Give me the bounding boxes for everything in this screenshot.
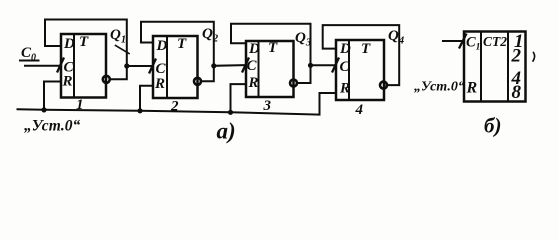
svg-text:D: D: [156, 38, 168, 54]
svg-text:Q4: Q4: [388, 28, 404, 47]
svg-text:CT2: CT2: [483, 34, 507, 49]
svg-text:C: C: [340, 59, 351, 75]
node junction T3 output: [308, 63, 313, 68]
svg-text:R: R: [62, 74, 73, 90]
CT2 input wire C1: [443, 40, 462, 42]
wire C0 to T1 C input: [25, 65, 60, 67]
node junction T1 output: [124, 63, 129, 68]
svg-text:8: 8: [512, 82, 522, 103]
reset bus Уст.0: [18, 93, 336, 115]
svg-text:3: 3: [263, 98, 272, 114]
wire T3 to T4 C input: [311, 64, 334, 66]
T1 dynamic input slash: [58, 59, 64, 72]
svg-text:б): б): [484, 114, 501, 138]
svg-text:R: R: [248, 75, 259, 91]
flip-flop T3 box: [246, 41, 294, 97]
svg-text:R: R: [466, 80, 478, 97]
svg-text:Q3: Q3: [295, 30, 311, 49]
svg-text:а): а): [217, 119, 236, 144]
node T3 reset junction: [228, 110, 233, 115]
T3 dynamic input slash: [243, 59, 249, 72]
svg-text:„Уст.0“: „Уст.0“: [414, 80, 465, 95]
svg-text:D: D: [63, 36, 75, 52]
svg-text:C: C: [156, 61, 167, 77]
svg-text:T: T: [79, 34, 89, 50]
svg-text:D: D: [339, 41, 351, 57]
flip-flop T1 box: [61, 34, 106, 98]
svg-text:2: 2: [511, 46, 522, 67]
node T2 reset junction: [137, 108, 142, 113]
T1 inverted output bubble: [103, 76, 110, 83]
Q1 leader line: [116, 46, 130, 54]
counter CT2 box: [464, 32, 526, 102]
wire T1 feedback loop (bubble to D): [45, 20, 127, 80]
svg-text:Q2: Q2: [202, 26, 219, 45]
wire T2 R riser: [140, 86, 152, 111]
node T1 reset junction: [41, 107, 46, 112]
flip-flop T2 box: [153, 36, 198, 98]
node junction T2 output: [211, 63, 216, 68]
svg-text:4: 4: [355, 102, 364, 118]
stray print mark: [533, 53, 535, 62]
wire T2 to T3 C input: [214, 64, 244, 67]
svg-text:T: T: [268, 40, 278, 56]
T4 inverted output bubble: [380, 82, 387, 89]
wire T3 R riser: [231, 84, 246, 112]
wire T1 to T2 C input: [127, 65, 151, 67]
T2 inverted output bubble: [194, 78, 201, 85]
svg-text:„Уст.0“: „Уст.0“: [24, 118, 81, 135]
T3 inverted output bubble: [290, 80, 297, 87]
svg-text:C1: C1: [466, 35, 480, 53]
svg-text:D: D: [248, 41, 260, 57]
svg-text:T: T: [361, 41, 371, 57]
svg-text:Q1: Q1: [110, 27, 126, 46]
svg-text:T: T: [177, 36, 187, 52]
C0 label underline: [20, 60, 39, 62]
wire T4 feedback loop (bubble to D): [323, 25, 400, 85]
flip-flop T4 box: [336, 40, 384, 100]
CT2 dynamic input slash: [460, 35, 467, 48]
wire T1 R riser: [44, 82, 60, 110]
T2 dynamic input slash: [150, 60, 156, 73]
wire T3 feedback loop (bubble to D): [231, 24, 311, 83]
T4 dynamic input slash: [333, 59, 339, 72]
svg-text:R: R: [339, 81, 350, 97]
svg-text:R: R: [154, 76, 165, 92]
wire T2 feedback loop (bubble to D): [141, 22, 214, 82]
